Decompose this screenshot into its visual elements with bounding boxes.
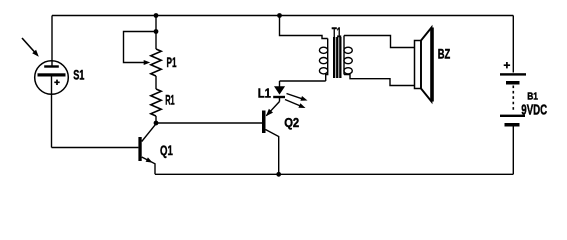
transistor Q1 — [138, 124, 156, 175]
wire battery top lead — [512, 16, 514, 73]
wire S1 top lead — [51, 16, 53, 67]
wire secondary top lead — [344, 36, 415, 48]
svg-text:Q1: Q1 — [160, 142, 173, 158]
potentiometer P1 — [124, 32, 162, 77]
wire bottom rail — [155, 173, 513, 175]
svg-text:BZ: BZ — [438, 46, 451, 62]
node Q2 emitter / bottom rail junction — [276, 172, 281, 177]
wire LED top lead — [279, 81, 281, 87]
photocell S1 — [35, 61, 69, 95]
svg-text:P1: P1 — [167, 54, 177, 70]
node top rail / transformer junction — [277, 13, 282, 18]
svg-text:R1: R1 — [165, 92, 175, 108]
wire S1 bottom lead — [51, 75, 53, 148]
svg-text:Q2: Q2 — [284, 116, 299, 130]
svg-text:T1: T1 — [332, 24, 342, 40]
wire P1 column — [155, 16, 157, 50]
wire LED cathode lead — [279, 98, 281, 102]
wire R1 bottom — [155, 116, 157, 123]
wire P1-R1 link — [155, 76, 157, 89]
buzzer BZ — [415, 28, 434, 102]
battery B1 — [500, 62, 526, 127]
transistor Q2 — [262, 102, 280, 175]
node Q1 collector junction — [154, 121, 159, 126]
svg-text:S1: S1 — [73, 67, 84, 83]
light arrow at S1 — [22, 38, 39, 57]
wire Q1 base — [52, 147, 139, 149]
wire battery bottom lead — [512, 127, 514, 175]
transformer T1 — [319, 36, 352, 82]
LED L1 — [273, 86, 307, 108]
wire top rail — [52, 15, 513, 17]
wire secondary bottom lead — [344, 75, 415, 86]
wire primary bottom lead — [280, 80, 326, 82]
svg-text:9VDC: 9VDC — [521, 102, 547, 119]
resistor R1 — [151, 89, 161, 116]
wire Q2 base — [156, 122, 262, 124]
wire primary top lead — [280, 16, 328, 39]
svg-text:L1: L1 — [258, 86, 271, 101]
node top rail / P1 junction — [154, 13, 159, 18]
node P1 loop junction — [154, 29, 159, 34]
